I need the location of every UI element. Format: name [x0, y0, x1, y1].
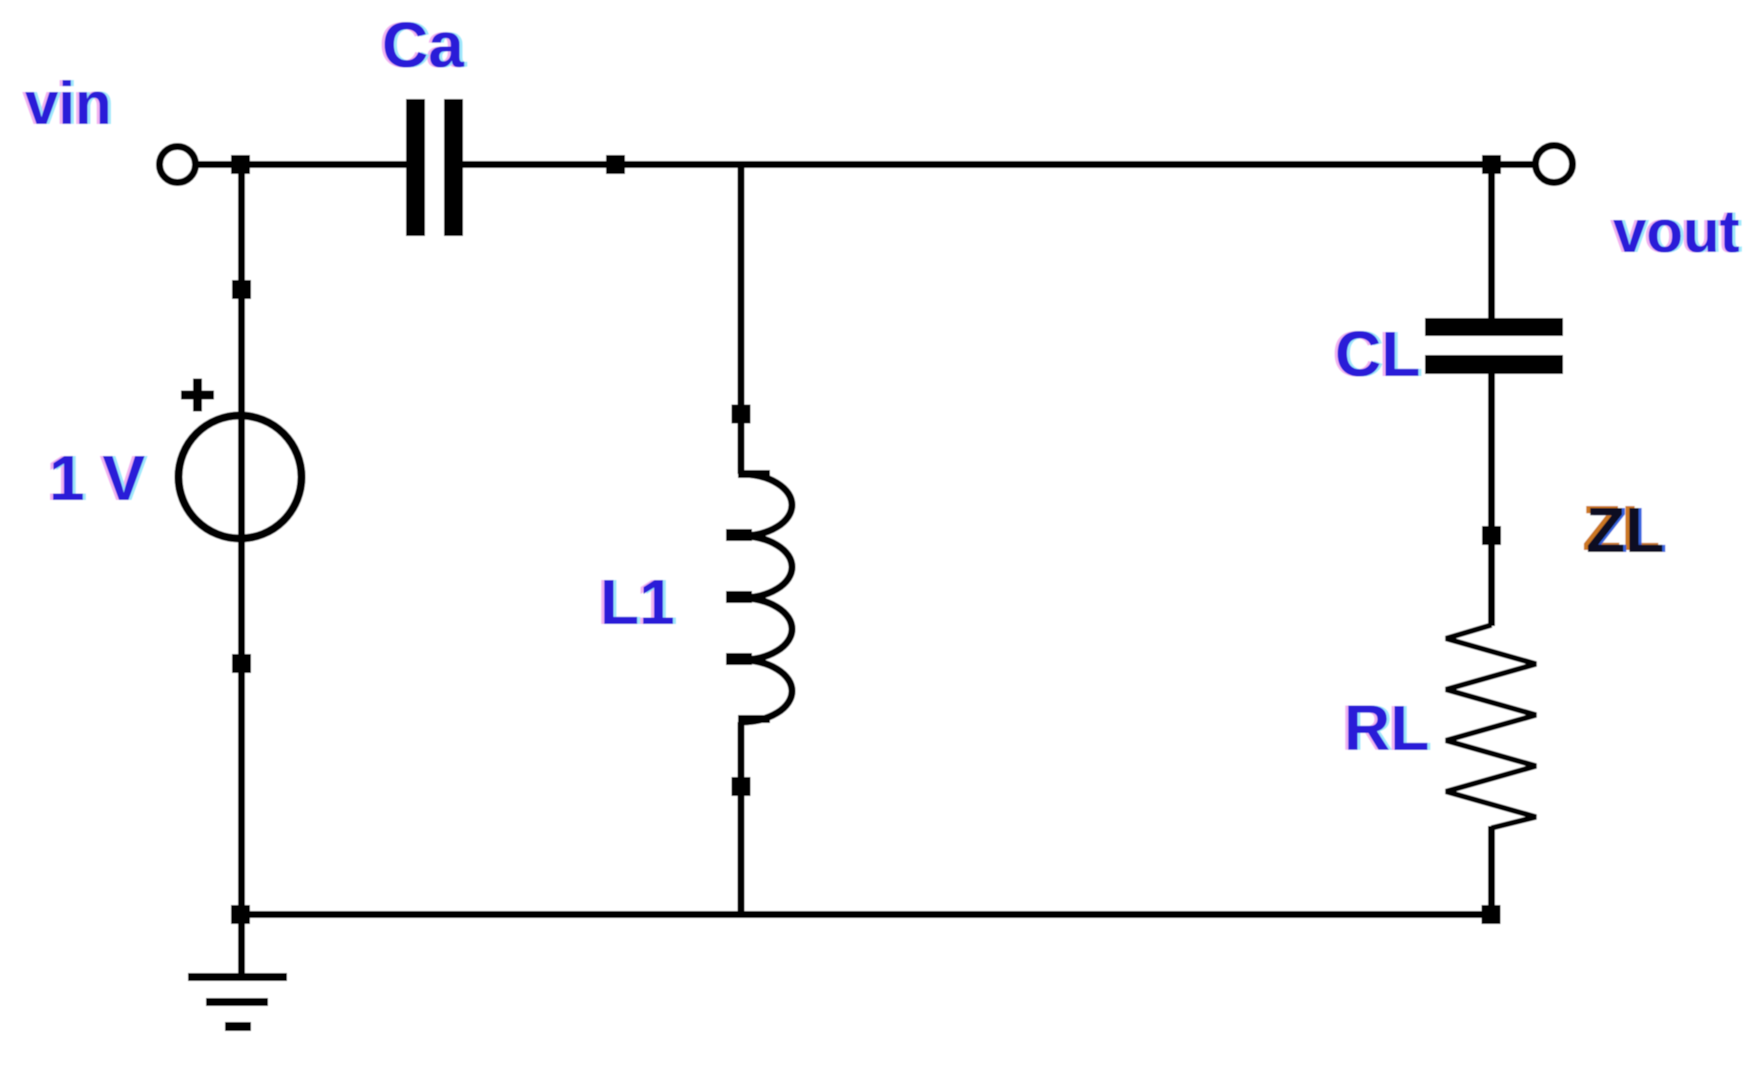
- capacitor C a label Ca: [379, 9, 467, 81]
- voltage source V1 circle: [179, 416, 302, 539]
- wire L1 bottom vertical: [738, 722, 745, 918]
- node L1 bottom terminal: [732, 777, 751, 796]
- inductor L1 coil: [726, 470, 792, 723]
- capacitor Ca left plate: [406, 99, 425, 236]
- ground: [188, 918, 287, 1031]
- svg-text:vout: vout: [1613, 198, 1740, 265]
- wire top rail left segment: [196, 161, 406, 168]
- svg-text:Ca: Ca: [382, 9, 464, 81]
- node bottom-left corner: [231, 905, 250, 924]
- net label ZL: [1582, 492, 1667, 566]
- node V1 minus terminal: [232, 654, 251, 673]
- resistor label RL: [1341, 692, 1432, 764]
- voltage source V1 plus sign: [181, 379, 214, 412]
- svg-text:RL: RL: [1344, 692, 1429, 764]
- capacitor CL bottom plate: [1425, 355, 1563, 374]
- capacitor CL top plate: [1425, 318, 1563, 336]
- wire bottom rail: [237, 911, 1495, 918]
- wire top rail right segment: [463, 161, 1533, 168]
- capacitor label CL: [1332, 318, 1423, 390]
- wire right vertical middle: [1488, 374, 1495, 626]
- svg-text:ZL: ZL: [1586, 494, 1664, 566]
- terminal vout: [1536, 146, 1573, 183]
- wire right vertical lower: [1488, 826, 1495, 918]
- wire L1 top vertical: [738, 161, 745, 474]
- net label vin: [22, 70, 115, 137]
- terminal vin: [160, 147, 196, 183]
- node ZL terminal: [1482, 526, 1501, 545]
- node L1 top terminal: [732, 405, 751, 424]
- node junction top-middle: [606, 155, 625, 174]
- resistor RL zigzag: [1446, 625, 1536, 828]
- node bottom-right corner: [1482, 905, 1501, 924]
- svg-text:L1: L1: [600, 566, 675, 638]
- wire left vertical: [238, 161, 245, 977]
- svg-text:vin: vin: [25, 70, 112, 137]
- inductor label L1: [597, 566, 678, 638]
- node junction top-left: [231, 155, 250, 174]
- svg-text:CL: CL: [1335, 318, 1420, 390]
- net label vout: [1610, 198, 1743, 265]
- value label 1 V: [46, 442, 148, 514]
- capacitor Ca right plate: [444, 99, 463, 236]
- svg-text:1 V: 1 V: [49, 442, 145, 514]
- wire right vertical upper: [1488, 161, 1495, 318]
- node V1 plus terminal: [232, 280, 251, 299]
- node junction top-right: [1482, 155, 1501, 174]
